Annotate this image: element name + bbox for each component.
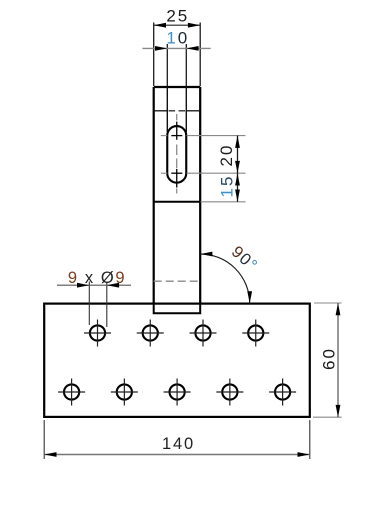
- dimension 20: [187, 136, 246, 174]
- slot obround: [167, 126, 186, 183]
- dimension 25: [154, 7, 201, 87]
- stem hidden dashed line near bottom: [154, 280, 201, 282]
- hole row2 h5: [58, 379, 85, 406]
- hole row1 h3: [190, 320, 217, 347]
- hole row1 h4: [242, 320, 269, 347]
- slot bottom center mark: [161, 169, 183, 188]
- dimension 140: [44, 420, 310, 459]
- stem bottom tab below plate top: [154, 304, 201, 314]
- hole row2 h6: [111, 379, 138, 406]
- dimension 9 x D9: [57, 269, 131, 327]
- svg-text:9 x Ø9: 9 x Ø9: [68, 269, 126, 287]
- slot centerline: [176, 114, 178, 194]
- plate outline: [44, 304, 310, 417]
- svg-text:140: 140: [162, 435, 195, 453]
- stem outline: [154, 87, 201, 304]
- svg-text:25: 25: [166, 7, 189, 26]
- slot top center mark: [161, 122, 183, 140]
- svg-text:10: 10: [166, 28, 189, 47]
- dimension 90 degrees arc: [200, 243, 261, 304]
- dimension 15: [201, 173, 246, 202]
- svg-text:20: 20: [217, 144, 236, 167]
- hole row2 h7: [164, 379, 191, 406]
- dimension 60: [313, 303, 342, 417]
- dimension 10: [142, 28, 210, 86]
- svg-text:60: 60: [320, 347, 339, 370]
- hole row2 h8: [216, 379, 243, 406]
- hole row1 h2: [137, 320, 164, 347]
- channel edge right: [185, 87, 187, 132]
- svg-text:15: 15: [217, 175, 236, 198]
- hole row1 h1: [84, 320, 111, 347]
- stem step edge: [154, 201, 201, 203]
- hole row2 h9: [269, 379, 296, 406]
- channel bottom edge (solid-dash-solid): [154, 110, 201, 112]
- channel edge left: [166, 87, 168, 132]
